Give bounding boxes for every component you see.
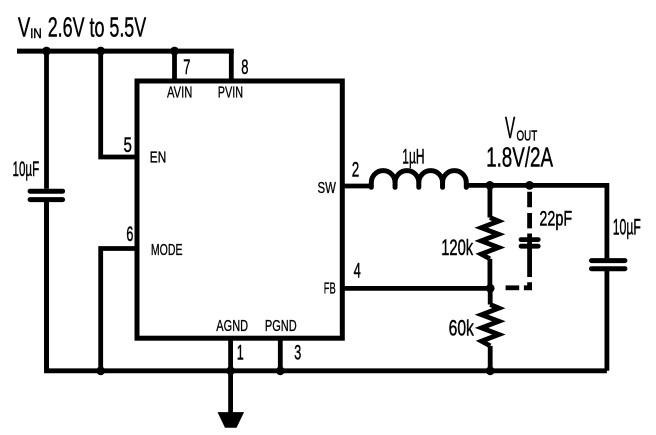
svg-text:3: 3	[294, 341, 301, 365]
node: VIN junction to pin 7	[170, 47, 179, 56]
wire: EN pull-up from VIN	[101, 51, 137, 157]
inductor L1 1µH	[371, 171, 466, 188]
svg-text:8: 8	[241, 55, 248, 79]
svg-text:PGND: PGND	[265, 318, 297, 335]
svg-text:5: 5	[124, 133, 132, 157]
svg-text:4: 4	[354, 258, 361, 282]
svg-text:AVIN: AVIN	[167, 84, 192, 101]
wire: FB from IC to divider	[342, 286, 490, 291]
svg-text:2: 2	[352, 157, 360, 181]
wire: pin 8 stub PVIN	[229, 51, 234, 81]
svg-text:PVIN: PVIN	[218, 84, 243, 101]
node: VOUT junction to C2	[525, 181, 534, 190]
svg-text:EN: EN	[150, 149, 167, 166]
svg-text:1.8V/2A: 1.8V/2A	[486, 141, 553, 172]
node: AGND ground junction	[226, 366, 235, 375]
wire: AGND pin 1 to ground symbol	[228, 338, 233, 415]
wire: SW to inductor	[342, 184, 372, 189]
wire: VOUT rail to output cap	[465, 185, 607, 258]
capacitor C3 10µF output	[592, 261, 625, 371]
wire: VIN top rail	[17, 49, 234, 54]
svg-text:7: 7	[183, 55, 190, 79]
svg-text:AGND: AGND	[216, 318, 248, 335]
svg-text:1µH: 1µH	[402, 145, 424, 169]
wire: PGND pin 3 to ground rail	[278, 338, 283, 371]
IC U1 buck regulator body	[137, 81, 342, 338]
ground symbol	[218, 413, 243, 428]
svg-text:22pF: 22pF	[539, 208, 572, 231]
node: VIN junction to EN	[96, 47, 105, 56]
svg-text:V: V	[18, 12, 31, 43]
svg-text:10µF: 10µF	[613, 214, 641, 239]
svg-text:120k: 120k	[441, 235, 474, 260]
svg-text:MODE: MODE	[151, 242, 183, 259]
label: VIN supply voltage	[18, 12, 147, 43]
svg-text:IN: IN	[30, 26, 42, 41]
svg-text:1: 1	[237, 341, 244, 365]
wire: ground bottom rail	[47, 202, 607, 371]
resistor R2 60k	[482, 288, 499, 371]
node: FB divider junction	[486, 284, 495, 293]
label: VOUT output voltage	[486, 110, 553, 173]
node: PGND ground junction	[276, 366, 285, 375]
svg-text:V: V	[505, 110, 515, 145]
svg-text:6: 6	[126, 222, 133, 246]
svg-text:SW: SW	[318, 180, 337, 197]
node: divider ground junction	[486, 366, 495, 375]
svg-text:FB: FB	[324, 281, 336, 298]
capacitor C2 22pF feedforward (dashed optional)	[506, 192, 539, 288]
svg-text:10µF: 10µF	[13, 157, 40, 181]
svg-text:2.6V to 5.5V: 2.6V to 5.5V	[48, 12, 147, 43]
node: MODE ground junction	[96, 366, 105, 375]
resistor R1 120k	[481, 185, 498, 288]
svg-text:60k: 60k	[449, 315, 475, 340]
capacitor C1 10µF input	[30, 51, 63, 371]
node: VOUT junction to R1	[486, 181, 495, 190]
wire: MODE to ground rail	[101, 249, 137, 371]
wire: pin 7 stub AVIN	[172, 51, 177, 81]
node: VIN junction to C1	[42, 47, 51, 56]
